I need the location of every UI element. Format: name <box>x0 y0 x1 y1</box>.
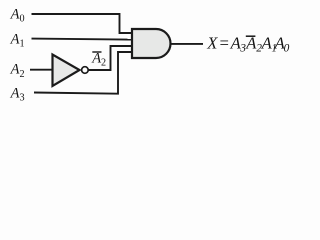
node A2bar overline <box>92 51 101 53</box>
wire A2 <box>30 69 52 71</box>
svg-text:A0: A0 <box>10 6 25 24</box>
wire A0 <box>32 14 133 33</box>
svg-text:A1: A1 <box>10 31 25 49</box>
svg-text:0: 0 <box>284 43 290 55</box>
inverter U1 <box>53 55 80 87</box>
svg-text:A2: A2 <box>10 62 25 80</box>
node A2bar overline in equation <box>246 35 256 37</box>
and-gate U2 <box>132 29 171 58</box>
wire A2bar <box>88 46 132 70</box>
node X equation <box>206 34 289 55</box>
svg-text:A3: A3 <box>10 85 25 103</box>
svg-text:=: = <box>219 34 230 53</box>
wire X output <box>171 43 203 45</box>
svg-text:X: X <box>206 34 218 53</box>
svg-text:A2: A2 <box>91 50 106 68</box>
inverter bubble <box>82 67 89 74</box>
wire A3 <box>34 52 132 94</box>
wire A1 <box>32 39 133 40</box>
